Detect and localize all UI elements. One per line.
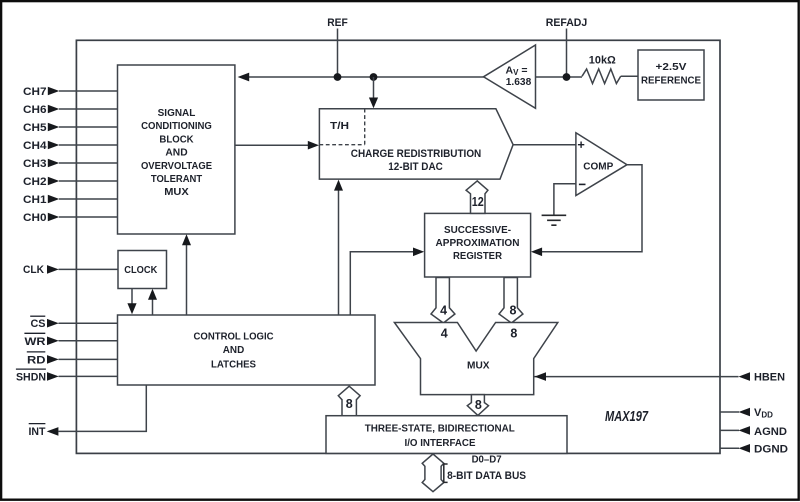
svg-text:CH2: CH2: [23, 176, 47, 188]
arrowhead into SAR right: [531, 248, 542, 257]
svg-text:12: 12: [472, 195, 484, 209]
pin SHDN (active low): [16, 369, 118, 384]
pin HBEN: [534, 371, 785, 383]
block MUX: [394, 323, 557, 395]
svg-text:AND: AND: [165, 147, 188, 159]
pin WR (active low): [24, 333, 117, 348]
svg-text:CLK: CLK: [23, 264, 44, 276]
svg-text:8: 8: [510, 303, 517, 317]
pin CH7: [23, 86, 118, 98]
arrowhead up into DAC bottom: [334, 180, 343, 191]
svg-text:CH0: CH0: [23, 212, 47, 224]
arrowhead into DAC top: [369, 98, 378, 109]
svg-text:MUX: MUX: [467, 360, 490, 372]
svg-text:CONTROL LOGIC: CONTROL LOGIC: [194, 330, 274, 342]
pin CH1: [23, 194, 118, 206]
bus arrow D0-D7 bidirectional: [422, 454, 444, 492]
svg-text:8: 8: [510, 327, 517, 341]
svg-text:CONDITIONING: CONDITIONING: [141, 120, 212, 132]
comparator COMP: [576, 133, 627, 196]
svg-text:CS: CS: [31, 318, 46, 330]
svg-text:CH6: CH6: [23, 104, 47, 116]
chip boundary MAX197: [76, 40, 720, 453]
svg-text:MUX: MUX: [164, 186, 189, 198]
wire control logic to DAC: [338, 190, 340, 315]
arrowhead into DAC left: [308, 141, 319, 150]
wire comparator minus input: [554, 184, 576, 215]
svg-text:CHARGE REDISTRIBUTION: CHARGE REDISTRIBUTION: [351, 148, 482, 160]
arrowhead into SAR left: [413, 248, 424, 257]
pin AGND: [720, 426, 787, 438]
svg-text:HBEN: HBEN: [754, 371, 785, 383]
block clock: [118, 251, 167, 289]
wire control logic to signal block: [186, 245, 188, 315]
svg-text:8: 8: [346, 397, 353, 411]
block +2.5V REFERENCE: [638, 50, 704, 100]
bus arrow 8 SAR to MUX: [499, 278, 523, 324]
pin VDD: [720, 407, 773, 420]
pin CH6: [23, 104, 118, 116]
svg-text:CH4: CH4: [23, 140, 47, 152]
wire REFADJ vertical: [566, 29, 568, 78]
bus arrow 4 SAR to MUX: [431, 278, 455, 324]
arrowhead into signal conditioning block: [238, 73, 250, 82]
wire tap down to DAC: [373, 77, 375, 98]
bracket for data bus label: [444, 464, 448, 482]
svg-text:OVERVOLTAGE: OVERVOLTAGE: [141, 160, 212, 172]
wire comparator output to SAR: [542, 165, 643, 252]
svg-text:CH1: CH1: [23, 194, 47, 206]
svg-text:8: 8: [475, 398, 482, 412]
pin CLK: [23, 264, 118, 276]
arrowhead down into control logic: [127, 303, 136, 314]
wire control logic to SAR: [350, 252, 413, 315]
svg-text:I/O INTERFACE: I/O INTERFACE: [405, 437, 476, 449]
junction dot DAC tap: [370, 73, 378, 81]
pin RD (active low): [27, 352, 118, 367]
pin INT output (active low): [29, 385, 147, 438]
svg-text:AND: AND: [223, 344, 245, 356]
resistor 10k: [582, 69, 621, 84]
svg-text:AGND: AGND: [754, 426, 787, 438]
wire resistor to reference: [621, 75, 638, 77]
pin CH3: [23, 158, 118, 170]
wire control logic to clock: [152, 300, 154, 316]
block control logic and latches: [118, 315, 376, 385]
svg-text:CH3: CH3: [23, 158, 47, 170]
svg-text:DGND: DGND: [754, 444, 788, 456]
pin CH2: [23, 176, 118, 188]
pin DGND: [720, 444, 788, 456]
wire REF bus horizontal: [249, 76, 486, 78]
junction dot REFADJ: [563, 73, 571, 81]
junction dot REF: [334, 73, 342, 81]
block signal conditioning / overvoltage tolerant mux: [118, 65, 235, 234]
bus arrow 8 I/O interface to control logic: [338, 386, 360, 416]
svg-text:10kΩ: 10kΩ: [589, 54, 616, 66]
svg-text:4: 4: [441, 327, 448, 341]
wire signal block to T/H: [235, 144, 309, 146]
svg-text:+2.5V: +2.5V: [656, 61, 687, 73]
svg-text:COMP: COMP: [583, 161, 613, 173]
svg-text:TOLERANT: TOLERANT: [151, 173, 203, 185]
svg-text:D0–D7: D0–D7: [472, 454, 502, 466]
svg-text:THREE-STATE, BIDIRECTIONAL: THREE-STATE, BIDIRECTIONAL: [365, 422, 516, 434]
block three-state bidirectional I/O interface: [326, 416, 567, 454]
block T/H charge redistribution 12-bit DAC: [319, 109, 513, 179]
arrowhead up into clock: [148, 289, 157, 300]
svg-text:CH7: CH7: [23, 86, 47, 98]
svg-text:CH5: CH5: [23, 122, 47, 134]
pin CH5: [23, 122, 118, 134]
svg-text:4: 4: [440, 303, 447, 317]
svg-text:SIGNAL: SIGNAL: [158, 107, 196, 119]
svg-text:RD: RD: [27, 355, 46, 367]
svg-text:REGISTER: REGISTER: [453, 250, 502, 262]
svg-text:APPROXIMATION: APPROXIMATION: [436, 237, 520, 249]
wire REF vertical: [337, 29, 339, 78]
block successive-approximation register: [425, 213, 531, 277]
svg-text:MAX197: MAX197: [605, 409, 649, 425]
svg-text:REFADJ: REFADJ: [546, 17, 588, 29]
svg-text:8-BIT DATA BUS: 8-BIT DATA BUS: [447, 470, 526, 482]
svg-text:REFERENCE: REFERENCE: [641, 74, 701, 86]
svg-text:T/H: T/H: [330, 120, 349, 132]
wire clock to control logic: [131, 289, 133, 304]
svg-text:INT: INT: [29, 426, 46, 438]
bus arrow 12 to DAC: [466, 181, 488, 214]
ground: [542, 215, 567, 225]
svg-text:SUCCESSIVE-: SUCCESSIVE-: [444, 224, 511, 236]
op-amp AV=1.638: [484, 45, 536, 108]
wire amp output to REFADJ node: [536, 76, 582, 78]
svg-text:CLOCK: CLOCK: [124, 264, 157, 276]
wire DAC to comparator: [513, 144, 576, 146]
pin CH4: [23, 140, 118, 152]
svg-text:LATCHES: LATCHES: [211, 358, 256, 370]
svg-text:REF: REF: [327, 17, 348, 29]
svg-text:SHDN: SHDN: [16, 372, 46, 384]
pin CS (active low): [30, 316, 117, 330]
pin CH0: [23, 212, 118, 224]
arrowhead up into signal block: [182, 234, 191, 245]
svg-text:BLOCK: BLOCK: [159, 133, 194, 145]
bus arrow 8 MUX to I/O interface: [467, 395, 488, 416]
svg-text:1.638: 1.638: [506, 76, 532, 88]
svg-text:WR: WR: [25, 336, 46, 348]
svg-text:12-BIT DAC: 12-BIT DAC: [388, 161, 443, 173]
